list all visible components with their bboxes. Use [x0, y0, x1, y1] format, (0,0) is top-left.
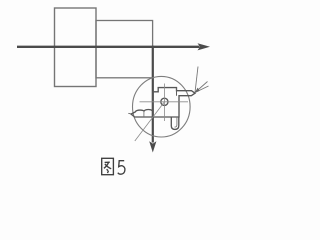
left insert shoe — [131, 110, 153, 118]
vertical feed arrowhead — [149, 141, 156, 152]
leader line right — [195, 86, 209, 93]
horizontal axis line — [17, 46, 200, 48]
spindle housing rectangle (small) — [96, 21, 153, 78]
caption numeral 5 — [118, 161, 125, 175]
vertical feed line — [152, 46, 154, 143]
workpiece block rectangle (large) — [55, 8, 97, 87]
leader line steep — [195, 67, 198, 93]
bottom insert inner curl — [175, 117, 177, 127]
horizontal axis arrowhead — [198, 43, 211, 50]
cutter circle — [133, 76, 191, 137]
cutter body square outline — [153, 88, 195, 117]
horizontal centerline — [140, 101, 189, 103]
leader line upper-right — [195, 82, 208, 93]
vertical centerline — [163, 84, 165, 122]
left insert toe tick — [128, 112, 131, 115]
bottom insert tab — [171, 117, 179, 129]
caption character 图 — [102, 158, 114, 174]
diagonal centerline — [135, 102, 164, 141]
leader arrowhead — [195, 88, 200, 93]
center hole — [161, 98, 168, 105]
left insert divider tick — [143, 111, 145, 117]
insert bar inner line (top-right) — [176, 88, 178, 96]
